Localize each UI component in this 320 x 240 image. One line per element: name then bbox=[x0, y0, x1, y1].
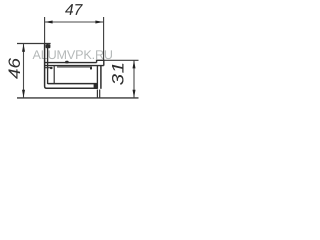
profile top-left hook knob bbox=[46, 44, 51, 48]
arrow up of 46 bbox=[22, 44, 25, 52]
arrow left of 47 bbox=[45, 21, 53, 24]
profile web top line bbox=[45, 62, 97, 64]
svg-text:46: 46 bbox=[5, 58, 24, 79]
extension line left (top dim) bbox=[44, 17, 46, 44]
bottom bar top line bbox=[48, 83, 98, 85]
profile left wall inner bbox=[47, 44, 49, 85]
bottom fin inner bbox=[99, 90, 101, 98]
bottom bar right junction blob bbox=[94, 83, 98, 88]
extension line top of 46 (to profile) bbox=[17, 43, 45, 45]
dimension line 46 bbox=[23, 44, 25, 98]
arrow down of 31 bbox=[133, 90, 136, 98]
svg-text:31: 31 bbox=[108, 61, 127, 85]
arrow up of 31 bbox=[133, 60, 136, 68]
knob above web bbox=[65, 61, 68, 64]
svg-text:47: 47 bbox=[65, 2, 84, 19]
profile right wall outer bbox=[100, 66, 102, 89]
arrow down of 46 bbox=[22, 90, 25, 98]
arrow right of 47 bbox=[95, 21, 103, 24]
web underside hook bbox=[90, 67, 92, 69]
C-slot lip knob bbox=[50, 67, 53, 69]
dimension line 31 bbox=[133, 60, 135, 98]
profile right wall inner bbox=[96, 66, 98, 89]
extension line right (top dim, down to profile head) bbox=[103, 17, 105, 60]
profile web bottom line bbox=[45, 65, 104, 67]
profile top-left hook line bbox=[45, 43, 51, 45]
ground extension line (bottom reference) bbox=[17, 97, 139, 99]
profile left wall outer + bottom bar bottom bbox=[45, 44, 98, 89]
profile right head outline bbox=[97, 60, 104, 65]
extension line top of 31 (from profile head) bbox=[104, 59, 139, 61]
sub-line below web (C-slot) bbox=[45, 67, 53, 69]
internal partition bbox=[53, 66, 55, 84]
web underside line right part bbox=[57, 66, 92, 68]
bottom fin outer bbox=[96, 90, 98, 98]
dimension line 47 bbox=[45, 21, 104, 23]
